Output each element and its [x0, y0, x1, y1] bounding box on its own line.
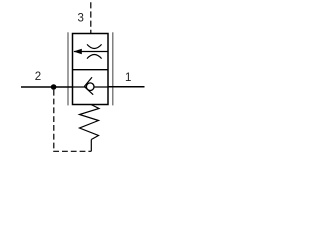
box divider	[73, 69, 109, 71]
throttle upper arc	[87, 44, 102, 48]
arrowhead pointing left	[73, 49, 81, 54]
svg-text:2: 2	[35, 71, 41, 83]
spring tail wire	[90, 140, 92, 152]
valve body box	[73, 34, 109, 105]
svg-text:3: 3	[78, 13, 84, 25]
compensator flow line (top cell)	[74, 51, 108, 53]
throttle lower arc	[87, 55, 102, 59]
wire through valve body	[73, 86, 109, 88]
gray side bar left	[67, 32, 69, 105]
wire port 1 (right)	[108, 86, 145, 88]
pilot wire dashed horizontal	[53, 150, 91, 152]
gray side bar right	[112, 32, 114, 105]
pilot line port 3 (dashed vertical)	[90, 2, 92, 33]
pilot wire dashed vertical	[53, 90, 55, 152]
wire port 2 (left)	[21, 86, 73, 88]
svg-text:1: 1	[125, 72, 131, 84]
check valve ball	[86, 83, 94, 91]
spring	[80, 105, 100, 140]
check valve seat lower arm	[84, 87, 93, 95]
check valve seat upper arm	[84, 77, 92, 86]
junction node dot	[51, 84, 57, 90]
